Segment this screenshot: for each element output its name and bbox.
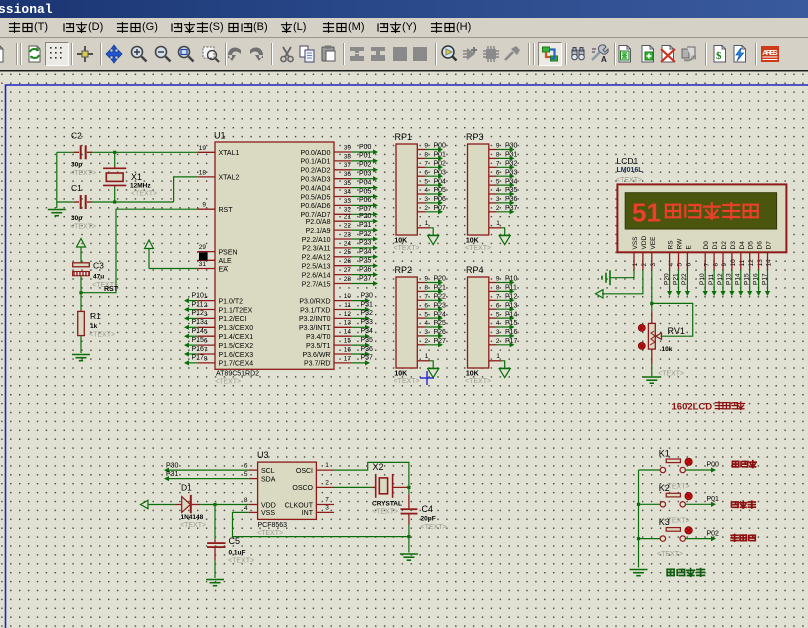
svg-text:P11: P11 — [192, 301, 204, 308]
pin 26 with net label P25 — [334, 265, 352, 267]
svg-text:<TEXT>: <TEXT> — [228, 558, 254, 565]
svg-text:D7: D7 — [766, 241, 773, 250]
pin 8 net P21 — [417, 290, 425, 292]
svg-text:P32: P32 — [361, 310, 374, 317]
pin P1.0/T2 (1) with net label P10 — [197, 300, 215, 302]
wire — [80, 276, 82, 312]
svg-text:5: 5 — [496, 178, 500, 185]
toolbar make device — [458, 42, 482, 66]
svg-text:<TEXT>: <TEXT> — [70, 224, 96, 231]
pin 6 net P23 — [417, 308, 425, 310]
wire SCL net label P30 — [165, 469, 249, 471]
wire net P11 — [713, 270, 715, 294]
svg-text:RP3: RP3 — [466, 132, 484, 142]
svg-text:2: 2 — [325, 480, 329, 487]
svg-text:C2: C2 — [71, 131, 82, 141]
svg-text:P17: P17 — [505, 338, 518, 345]
wire VDD — [200, 504, 249, 506]
toolbar wire autorouter — [538, 42, 562, 66]
pin 9 net P20 — [417, 282, 425, 284]
svg-text:P17: P17 — [192, 355, 205, 362]
crystal X2 — [372, 486, 376, 488]
svg-text:P36: P36 — [361, 346, 374, 353]
svg-text:22: 22 — [344, 223, 352, 230]
wire net P15 — [749, 270, 751, 294]
svg-text:P01: P01 — [434, 152, 447, 159]
svg-text:4: 4 — [244, 505, 248, 512]
svg-text:P01: P01 — [359, 153, 372, 160]
svg-text:P16: P16 — [505, 329, 518, 336]
toolbar block rotate (disabled) — [388, 42, 412, 66]
menu item 库(L) — [280, 21, 306, 37]
pin RST (9) — [197, 208, 215, 210]
wire net P10 — [704, 270, 706, 294]
svg-text:37: 37 — [344, 162, 352, 169]
svg-text:47u: 47u — [93, 274, 104, 281]
svg-text:4: 4 — [668, 263, 675, 267]
svg-text:P01: P01 — [707, 496, 720, 503]
wire — [639, 538, 661, 540]
svg-text:5: 5 — [204, 329, 208, 336]
pin 2 net P07 — [417, 211, 425, 213]
svg-text:14: 14 — [344, 329, 352, 336]
svg-text:C3: C3 — [93, 261, 104, 271]
svg-text:6: 6 — [496, 302, 500, 309]
toolbar design explorer — [613, 42, 637, 66]
wire net P02 — [685, 538, 715, 540]
button column rail — [638, 470, 640, 568]
svg-text:P31: P31 — [505, 152, 518, 159]
svg-text:<TEXT>: <TEXT> — [465, 378, 491, 385]
svg-text:P23: P23 — [434, 302, 447, 309]
svg-text:8: 8 — [712, 263, 719, 267]
power terminal — [596, 290, 604, 298]
svg-text:6: 6 — [496, 169, 500, 176]
pin 9 net P30 — [489, 149, 497, 151]
pin 21 with net label P20 — [334, 220, 352, 222]
pin 23 with net label P22 — [334, 238, 352, 240]
pin 8 net P31 — [489, 157, 497, 159]
toolbar grid toggle — [45, 42, 69, 66]
svg-text:4: 4 — [424, 320, 428, 327]
svg-text:<TEXT>: <TEXT> — [215, 379, 241, 386]
pin 10 with net label P30 — [334, 300, 352, 302]
svg-text:P3.6/WR: P3.6/WR — [302, 352, 330, 359]
svg-text:P13: P13 — [726, 273, 733, 285]
svg-text:3: 3 — [496, 329, 500, 336]
svg-text:1: 1 — [425, 353, 429, 360]
svg-text:<TEXT>: <TEXT> — [180, 522, 206, 529]
svg-text:3: 3 — [325, 505, 329, 512]
pin 6 net P13 — [489, 308, 497, 310]
label 减小键 — [731, 535, 738, 542]
menu item 源代码(S) — [170, 21, 224, 37]
svg-text:5: 5 — [424, 311, 428, 318]
svg-text:1602LCD: 1602LCD — [672, 402, 713, 413]
wire net P17 — [767, 270, 769, 294]
svg-text:P23: P23 — [359, 240, 372, 247]
svg-text:P2.7/A15: P2.7/A15 — [302, 281, 331, 288]
svg-text:P06: P06 — [434, 196, 447, 203]
svg-text:13: 13 — [757, 259, 764, 267]
svg-text:3: 3 — [650, 263, 657, 267]
svg-text:14: 14 — [766, 259, 773, 267]
ground — [206, 580, 224, 586]
svg-text:6: 6 — [424, 302, 428, 309]
pin P1.4/CEX1 (5) with net label P14 — [197, 335, 215, 337]
pin 4 net P35 — [489, 193, 497, 195]
wire — [639, 469, 661, 471]
pin 5 net P34 — [489, 184, 497, 186]
wire left rail C1/C2 — [56, 152, 58, 208]
pin 12 with net label P32 — [334, 317, 352, 319]
svg-text:26: 26 — [344, 258, 352, 265]
wire — [148, 504, 175, 506]
toolbar search tag — [566, 42, 590, 66]
svg-text:XTAL2: XTAL2 — [219, 175, 240, 182]
resistor R1 — [78, 311, 85, 335]
svg-text:P30: P30 — [166, 462, 179, 469]
pin 11 with net label P31 — [334, 309, 352, 311]
svg-text:P0.6/AD6: P0.6/AD6 — [301, 203, 331, 210]
svg-text:4: 4 — [424, 187, 428, 194]
svg-text:EA: EA — [219, 266, 229, 273]
svg-text:12MHz: 12MHz — [130, 183, 151, 190]
label 调节键 — [732, 502, 739, 507]
ground — [643, 377, 661, 383]
svg-text:PSEN: PSEN — [219, 249, 238, 256]
svg-text:P1.2/ECI: P1.2/ECI — [219, 316, 247, 323]
svg-text:P3.5/T1: P3.5/T1 — [306, 343, 331, 350]
svg-text:<TEXT>: <TEXT> — [372, 509, 398, 516]
svg-text:30p: 30p — [71, 162, 82, 169]
svg-text:<TEXT>: <TEXT> — [657, 551, 683, 558]
svg-text:2: 2 — [641, 263, 648, 267]
svg-text:2: 2 — [496, 338, 500, 345]
menu item 模板(M) — [322, 21, 365, 37]
svg-text:5: 5 — [424, 178, 428, 185]
capacitor C1 — [74, 201, 79, 203]
svg-text:1: 1 — [204, 293, 208, 300]
pin 32 with net label P07 — [334, 213, 352, 215]
svg-text:8: 8 — [496, 152, 500, 159]
svg-text:P15: P15 — [744, 273, 751, 285]
partial toolbar icon (cut) — [0, 42, 10, 66]
svg-text:4: 4 — [496, 187, 500, 194]
toolbar zoom out — [151, 42, 175, 66]
svg-text:P11: P11 — [708, 274, 715, 285]
svg-text:<TEXT>: <TEXT> — [421, 524, 447, 531]
svg-text:<TEXT>: <TEXT> — [257, 530, 283, 537]
svg-text:P13: P13 — [505, 302, 518, 309]
toolbar block copy — [345, 42, 369, 66]
svg-text:1: 1 — [632, 263, 639, 267]
svg-text:X1: X1 — [131, 172, 142, 182]
svg-text:P34: P34 — [361, 328, 374, 335]
ground — [48, 210, 66, 216]
U3 pin SCL (6) — [249, 469, 258, 471]
diode D1 1N4148 — [175, 504, 182, 506]
svg-text:16: 16 — [344, 346, 352, 353]
toolbar decompose — [500, 42, 524, 66]
svg-text:11: 11 — [344, 302, 351, 309]
svg-text:<TEXT>: <TEXT> — [70, 170, 96, 177]
pin 7 net P12 — [489, 299, 497, 301]
svg-text:P0.1/AD1: P0.1/AD1 — [301, 159, 331, 166]
svg-text:8: 8 — [424, 285, 428, 292]
svg-text:P1.3/CEX0: P1.3/CEX0 — [219, 325, 254, 332]
svg-text:27: 27 — [344, 267, 352, 274]
svg-text:RV1: RV1 — [668, 326, 685, 336]
pin 7 net P32 — [489, 166, 497, 168]
wire C1/XTAL2 net — [57, 201, 74, 203]
svg-text:12: 12 — [748, 259, 755, 267]
pin P1.1/T2EX (2) with net label P11 — [197, 309, 215, 311]
wire VSS loop — [233, 512, 409, 536]
pin 7 net P02 — [417, 166, 425, 168]
svg-text:RP1: RP1 — [395, 132, 413, 142]
pin 2 net P37 — [489, 211, 497, 213]
svg-text:P17: P17 — [761, 273, 768, 285]
svg-text:9: 9 — [424, 143, 428, 150]
toolbar redo — [244, 42, 268, 66]
svg-text:1: 1 — [496, 220, 500, 227]
svg-text:D0: D0 — [703, 241, 710, 250]
svg-text:P05: P05 — [434, 187, 447, 194]
svg-text:P2.2/A10: P2.2/A10 — [302, 237, 331, 244]
svg-text:P32: P32 — [505, 161, 518, 168]
svg-text:5: 5 — [496, 311, 500, 318]
junction RST node — [79, 291, 82, 294]
svg-text:C4: C4 — [422, 504, 434, 514]
svg-text:VSS: VSS — [261, 510, 275, 517]
power terminal for EA — [145, 240, 154, 249]
svg-text:R1: R1 — [90, 311, 101, 321]
svg-text:<TEXT>: <TEXT> — [616, 177, 642, 184]
svg-text:9: 9 — [424, 276, 428, 283]
svg-text:3: 3 — [496, 196, 500, 203]
svg-text:P05: P05 — [359, 188, 372, 195]
pin 5 net P14 — [489, 317, 497, 319]
pin 14 with net label P34 — [334, 335, 352, 337]
svg-text:8: 8 — [496, 285, 500, 292]
svg-text:VSS: VSS — [632, 236, 639, 250]
svg-text:RST: RST — [219, 207, 234, 214]
svg-text:10K: 10K — [466, 238, 479, 245]
svg-text:VDD: VDD — [641, 235, 648, 249]
svg-text:2: 2 — [496, 205, 500, 212]
menu item 调试(B) — [227, 21, 268, 37]
wire LCD VDD to power — [602, 270, 643, 294]
toolbar block move — [366, 42, 390, 66]
pin 1 of RP1 to power rail — [417, 227, 430, 229]
svg-text:7: 7 — [496, 294, 500, 301]
U3 pin INT (3) — [316, 511, 334, 513]
wire — [639, 503, 661, 505]
svg-text:23: 23 — [344, 231, 352, 238]
svg-text:P12: P12 — [192, 310, 205, 317]
svg-text:P2.5/A13: P2.5/A13 — [302, 264, 331, 271]
svg-text:P0.2/AD2: P0.2/AD2 — [301, 168, 331, 175]
svg-text:6: 6 — [424, 169, 428, 176]
pin 16 with net label P36 — [334, 353, 352, 355]
svg-text:P16: P16 — [192, 346, 205, 353]
svg-text:XTAL1: XTAL1 — [219, 150, 240, 157]
ground — [72, 355, 90, 361]
svg-text:K1: K1 — [659, 449, 670, 459]
svg-text:1k: 1k — [90, 323, 98, 330]
LCD screen — [625, 193, 776, 229]
svg-text:P10: P10 — [699, 273, 706, 285]
pin 5 net P04 — [417, 184, 425, 186]
svg-text:15: 15 — [344, 338, 352, 345]
svg-text:3: 3 — [424, 196, 428, 203]
toolbar zoom window — [174, 42, 198, 66]
svg-text:P1.1/T2EX: P1.1/T2EX — [219, 307, 253, 314]
svg-text:P25: P25 — [434, 320, 447, 327]
svg-text:P30: P30 — [505, 143, 518, 150]
svg-text:P27: P27 — [434, 338, 447, 345]
svg-text:P04: P04 — [434, 178, 447, 185]
ground — [630, 570, 648, 576]
svg-text:C1: C1 — [71, 183, 82, 193]
svg-text:<TEXT>: <TEXT> — [465, 245, 491, 252]
wire net P20 — [669, 270, 671, 294]
svg-text:P21: P21 — [672, 273, 679, 285]
toolbar remove sheet — [656, 42, 680, 66]
svg-text:24: 24 — [344, 240, 352, 247]
svg-text:P03: P03 — [434, 169, 447, 176]
junction — [113, 200, 116, 203]
pin 2 net P27 — [417, 344, 425, 346]
pin 38 with net label P01 — [334, 160, 352, 162]
svg-text:SCL: SCL — [261, 468, 275, 475]
pin 24 with net label P23 — [334, 247, 352, 249]
svg-text:20pF: 20pF — [421, 516, 436, 523]
pin 2 net P17 — [489, 344, 497, 346]
U3 pin OSCO (2) — [316, 486, 334, 488]
svg-text:P21: P21 — [359, 222, 372, 229]
svg-text:OSCI: OSCI — [296, 468, 313, 475]
svg-text:P02: P02 — [707, 530, 720, 537]
svg-text:P0.3/AD3: P0.3/AD3 — [301, 177, 331, 184]
svg-text:10: 10 — [730, 259, 737, 267]
svg-text:30p: 30p — [71, 215, 82, 222]
svg-text:E: E — [685, 245, 692, 250]
toolbar netlist to ARES — [758, 42, 782, 66]
pin 1 of RP3 to power rail — [489, 227, 502, 229]
svg-text:P33: P33 — [361, 319, 374, 326]
power terminal — [77, 239, 86, 248]
pin 4 net P25 — [417, 326, 425, 328]
wire LCD VSS to ground — [610, 270, 634, 278]
svg-text:10: 10 — [344, 293, 352, 300]
svg-text:C5: C5 — [229, 536, 241, 546]
svg-text:RS: RS — [668, 240, 675, 250]
mouse cursor crosshair — [420, 371, 434, 385]
svg-text:P11: P11 — [505, 285, 517, 292]
capacitor C2 — [74, 151, 79, 153]
svg-text:35: 35 — [344, 180, 352, 187]
svg-text:P22: P22 — [359, 231, 372, 238]
pin 4 net P05 — [417, 193, 425, 195]
svg-text:P2.0/A8: P2.0/A8 — [306, 219, 331, 226]
junction — [407, 535, 410, 538]
potentiometer RV1 — [651, 311, 653, 323]
svg-text:P10: P10 — [505, 276, 518, 283]
svg-text:5: 5 — [244, 471, 248, 478]
pin P1.3/CEX0 (4) with net label P13 — [197, 326, 215, 328]
svg-text:P24: P24 — [359, 249, 372, 256]
pin 5 net P24 — [417, 317, 425, 319]
junction — [113, 151, 116, 154]
wire net P22 — [686, 270, 688, 294]
svg-text:D1: D1 — [181, 483, 192, 493]
svg-text:8: 8 — [244, 497, 248, 504]
svg-text:36: 36 — [344, 171, 352, 178]
pin 35 with net label P04 — [334, 187, 352, 189]
toolbar origin — [73, 42, 97, 66]
svg-text:P20: P20 — [434, 276, 447, 283]
svg-text:<TEXT>: <TEXT> — [131, 191, 157, 198]
toolbar zoom area — [198, 42, 222, 66]
svg-text:P02: P02 — [359, 162, 372, 169]
pin 9 net P10 — [489, 282, 497, 284]
menu item 工具(T) — [8, 21, 48, 37]
svg-text:P14: P14 — [192, 328, 205, 335]
wire — [148, 249, 150, 269]
svg-text:P00: P00 — [359, 144, 372, 151]
svg-text:D1: D1 — [712, 241, 719, 250]
svg-text:1: 1 — [325, 462, 329, 469]
svg-text:<TEXT>: <TEXT> — [664, 518, 690, 525]
svg-text:VDD: VDD — [261, 502, 276, 509]
toolbar pan — [102, 42, 126, 66]
svg-text:4: 4 — [496, 320, 500, 327]
toolbar property assignment — [587, 42, 611, 66]
LCD display LCD1 LM016L — [617, 184, 786, 252]
junction — [650, 302, 653, 305]
svg-text:P16: P16 — [752, 273, 759, 285]
svg-text:D4: D4 — [739, 241, 746, 250]
svg-text:P31: P31 — [361, 301, 374, 308]
svg-text:U3: U3 — [257, 450, 269, 460]
pin 27 with net label P26 — [334, 274, 352, 276]
svg-text:P14: P14 — [735, 273, 742, 285]
svg-text:P22: P22 — [681, 273, 688, 285]
svg-text:D6: D6 — [757, 241, 764, 250]
svg-text:P02: P02 — [434, 161, 447, 168]
toolbar exit to parent — [677, 42, 701, 66]
svg-text:6: 6 — [686, 263, 693, 267]
pin 8 net P01 — [417, 157, 425, 159]
svg-text:INT: INT — [302, 510, 314, 517]
svg-text:P37: P37 — [505, 205, 518, 212]
pin ALE (30) — [197, 259, 215, 261]
svg-text:P2.4/A12: P2.4/A12 — [302, 255, 331, 262]
toolbar new sheet — [636, 42, 660, 66]
svg-text:29: 29 — [199, 244, 207, 251]
pin XTAL1 (19) — [197, 151, 215, 153]
svg-text:13: 13 — [344, 320, 352, 327]
svg-text:3: 3 — [204, 311, 208, 318]
svg-text:RP4: RP4 — [466, 265, 484, 275]
pin 7 net P22 — [417, 299, 425, 301]
svg-text:P12: P12 — [505, 294, 518, 301]
svg-text:P27: P27 — [359, 275, 372, 282]
svg-text:P3.0/RXD: P3.0/RXD — [299, 298, 330, 305]
svg-text:10K: 10K — [466, 371, 479, 378]
